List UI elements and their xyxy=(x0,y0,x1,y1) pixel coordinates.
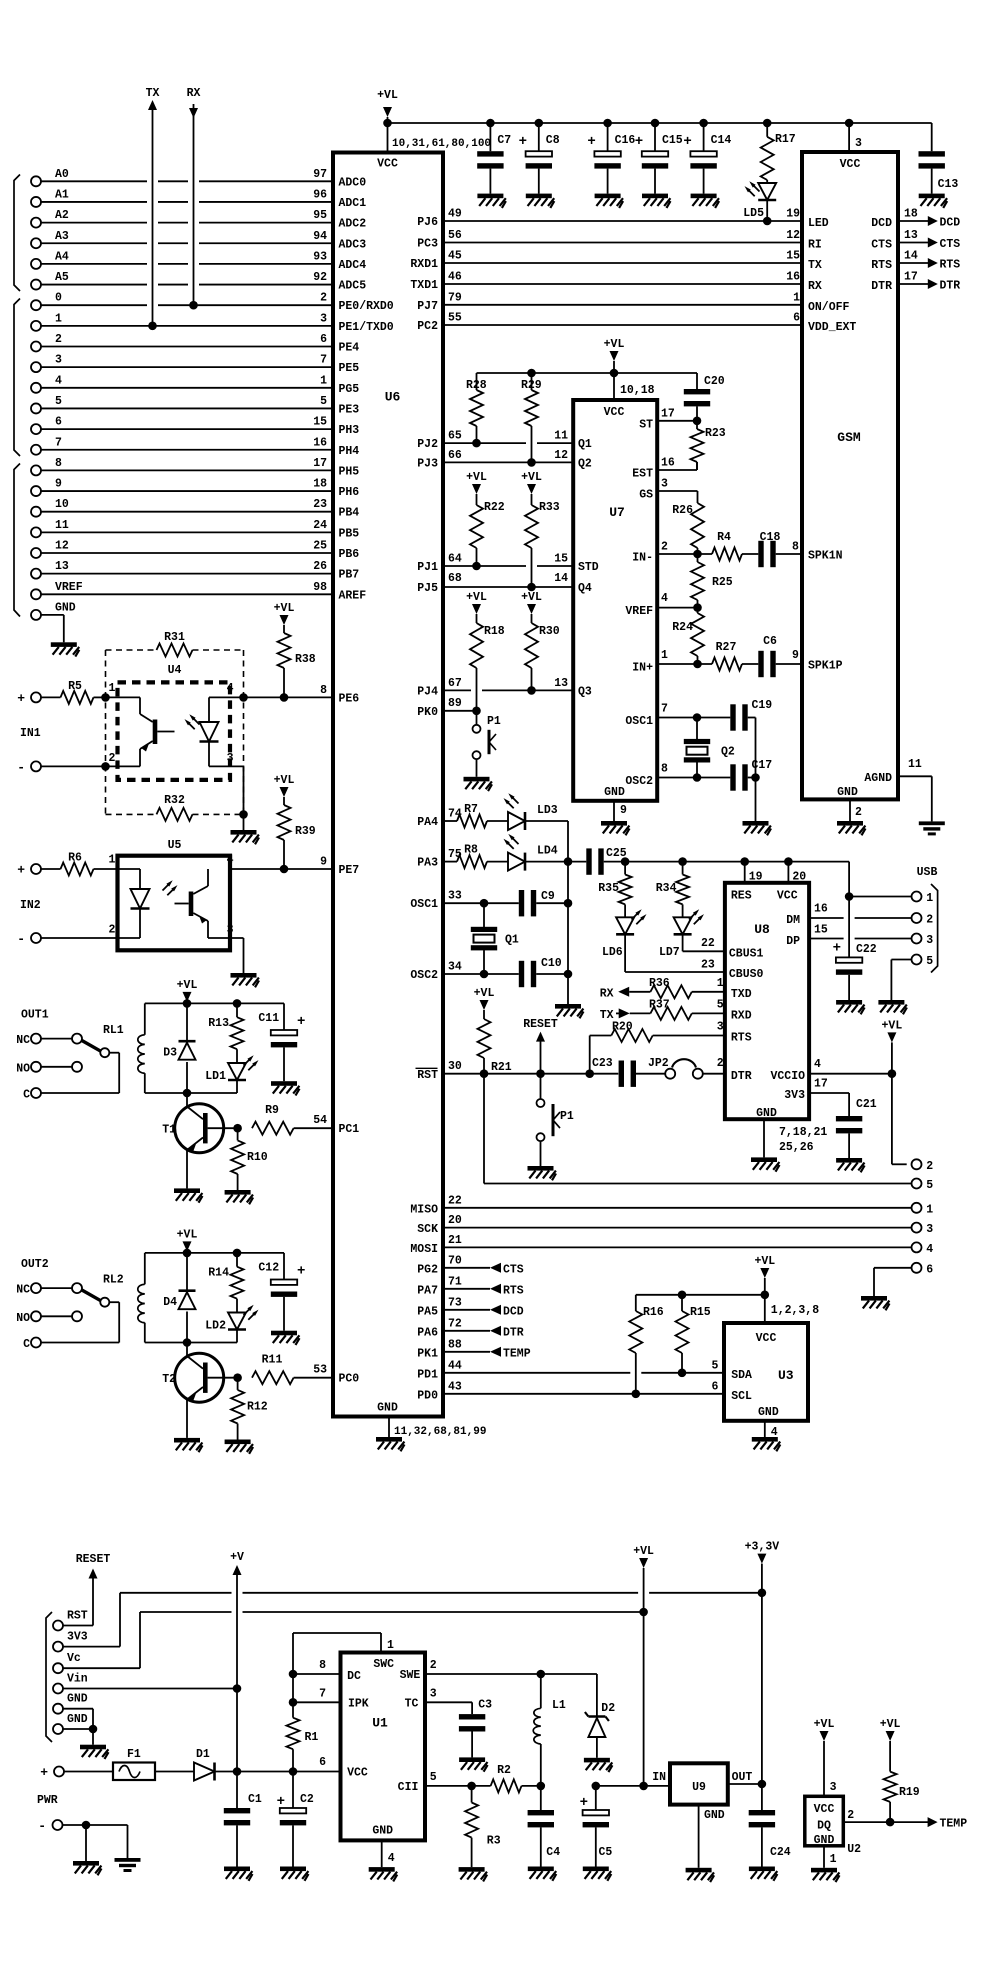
svg-text:C22: C22 xyxy=(856,943,877,956)
svg-text:RESET: RESET xyxy=(76,1553,111,1566)
terminal GND bottom xyxy=(53,1693,88,1714)
wire VREF xyxy=(657,607,697,609)
svg-text:PJ5: PJ5 xyxy=(417,582,438,595)
junction rail2 VCC xyxy=(610,369,619,378)
wire PA4 xyxy=(443,820,457,822)
svg-text:NC: NC xyxy=(16,1034,30,1047)
svg-text:14: 14 xyxy=(554,572,568,585)
svg-text:17: 17 xyxy=(661,407,675,420)
svg-text:GND: GND xyxy=(67,1693,88,1706)
svg-text:-: - xyxy=(17,932,25,947)
svg-text:3: 3 xyxy=(830,1781,837,1794)
pin 94 ADC3 xyxy=(313,230,366,252)
svg-text:R5: R5 xyxy=(68,680,82,693)
svg-text:PH4: PH4 xyxy=(339,445,360,458)
svg-text:A5: A5 xyxy=(55,271,69,284)
svg-text:10,18: 10,18 xyxy=(620,384,655,397)
signal CTS out xyxy=(898,229,960,251)
svg-text:T1: T1 xyxy=(162,1124,176,1137)
svg-text:MISO: MISO xyxy=(410,1203,438,1216)
resistor R21 xyxy=(478,1010,512,1074)
ground C12 xyxy=(271,1331,297,1336)
terminal 4 xyxy=(31,374,62,393)
power +VL R18 xyxy=(466,591,487,614)
svg-text:DTR: DTR xyxy=(731,1070,752,1083)
crystal Q2 xyxy=(684,718,735,778)
button P1a xyxy=(473,711,501,777)
wire DM xyxy=(809,917,844,919)
capacitor C16 xyxy=(587,123,635,194)
wire USB1 xyxy=(849,896,911,898)
svg-text:1: 1 xyxy=(55,312,62,325)
pin PA5 xyxy=(417,1296,462,1318)
wire Vc b xyxy=(64,1667,141,1669)
svg-text:C2: C2 xyxy=(300,1793,314,1806)
svg-text:IN-: IN- xyxy=(632,552,653,565)
led LD5 xyxy=(743,181,776,221)
junction +3,3V line1 xyxy=(758,1589,767,1598)
wire 9 to U6 xyxy=(42,490,334,492)
ground C8 xyxy=(526,194,552,199)
power +VL R19 xyxy=(880,1718,901,1772)
junction R29 rail xyxy=(527,369,536,378)
ground C16 xyxy=(595,194,621,199)
svg-text:2: 2 xyxy=(717,1057,724,1070)
svg-text:A3: A3 xyxy=(55,230,69,243)
ground term6 xyxy=(861,1296,887,1301)
svg-text:64: 64 xyxy=(448,553,462,566)
svg-text:SWC: SWC xyxy=(373,1658,394,1671)
svg-text:C: C xyxy=(23,1338,30,1351)
wire U9 GND xyxy=(698,1805,700,1868)
terminal VREF xyxy=(31,581,83,600)
resistor R29 xyxy=(521,373,542,462)
capacitor C24 xyxy=(749,1784,791,1867)
svg-text:-: - xyxy=(38,1819,46,1834)
svg-text:R35: R35 xyxy=(598,882,619,895)
svg-text:RXD: RXD xyxy=(731,1010,752,1023)
terminal 8 xyxy=(31,457,62,476)
svg-text:8: 8 xyxy=(792,541,799,554)
wire OSC2 U7 xyxy=(657,777,730,779)
svg-text:TEMP: TEMP xyxy=(940,1818,968,1831)
pin 1 PG5 xyxy=(320,374,359,396)
pin 15 PH3 xyxy=(313,416,359,438)
svg-text:C11: C11 xyxy=(258,1012,279,1025)
svg-text:6: 6 xyxy=(320,333,327,346)
svg-text:25: 25 xyxy=(313,540,327,553)
svg-text:RTS: RTS xyxy=(731,1032,752,1045)
svg-text:U9: U9 xyxy=(692,1781,706,1794)
signal RESET xyxy=(523,1018,558,1074)
ground U4 xyxy=(231,830,257,835)
svg-text:AREF: AREF xyxy=(339,589,367,602)
relay RL2 coil xyxy=(138,1253,145,1343)
pin 92 ADC5 xyxy=(313,271,366,293)
wire RXD1 to GSM xyxy=(443,262,802,264)
svg-text:2: 2 xyxy=(926,1160,933,1173)
wire R16 rail xyxy=(636,1294,765,1296)
bracket bottom conn xyxy=(46,1612,52,1742)
svg-text:TX: TX xyxy=(808,259,822,272)
svg-text:C6: C6 xyxy=(763,635,777,648)
svg-text:PA7: PA7 xyxy=(417,1284,438,1297)
junction C9 xyxy=(564,899,573,908)
svg-text:Q2: Q2 xyxy=(578,457,592,470)
pin labels PC3 xyxy=(417,229,800,251)
svg-text:R33: R33 xyxy=(539,501,560,514)
ground U6 xyxy=(376,1437,402,1442)
terminal A2 xyxy=(31,209,69,228)
resistor R38 xyxy=(278,625,316,697)
pin PG2 xyxy=(417,1254,462,1276)
terminal 12 xyxy=(31,540,69,559)
svg-text:4: 4 xyxy=(814,1058,821,1071)
wire SCK xyxy=(443,1227,911,1229)
svg-text:P1: P1 xyxy=(560,1110,574,1123)
pin 93 ADC4 xyxy=(313,250,366,272)
signal DTR out xyxy=(898,271,960,293)
svg-text:+: + xyxy=(277,1794,285,1810)
wire PJ6 to GSM xyxy=(443,220,802,222)
terminal MISO xyxy=(912,1203,934,1217)
junction C24 xyxy=(758,1780,767,1789)
svg-text:PJ4: PJ4 xyxy=(417,685,438,698)
svg-text:2: 2 xyxy=(855,806,862,819)
wire RL2 rail top xyxy=(145,1252,284,1254)
capacitor C25 xyxy=(568,847,849,875)
transistor T1 xyxy=(162,1093,237,1188)
power +VL top xyxy=(377,89,398,123)
pin PA6 xyxy=(417,1317,462,1339)
svg-text:+VL: +VL xyxy=(177,979,198,992)
svg-text:6: 6 xyxy=(926,1263,933,1276)
svg-text:RTS: RTS xyxy=(871,259,892,272)
pins U4 xyxy=(109,682,234,765)
svg-text:PA5: PA5 xyxy=(417,1305,438,1318)
wire PA3 xyxy=(443,861,457,863)
ground U9 xyxy=(686,1868,712,1873)
svg-text:26: 26 xyxy=(313,560,327,573)
svg-text:5: 5 xyxy=(320,395,327,408)
wire SWC net xyxy=(292,1633,294,1702)
svg-text:71: 71 xyxy=(448,1275,462,1288)
bracket 0-7 xyxy=(14,299,20,457)
capacitor C10 xyxy=(519,957,568,987)
junction IN- xyxy=(693,550,702,559)
svg-text:PC2: PC2 xyxy=(417,320,438,333)
terminal GND bottom xyxy=(53,1713,88,1734)
svg-text:17: 17 xyxy=(313,457,327,470)
svg-text:TEMP: TEMP xyxy=(503,1347,531,1360)
pin SPK1N xyxy=(792,541,843,563)
svg-text:6: 6 xyxy=(55,416,62,429)
signal TEMP out xyxy=(928,1817,968,1831)
svg-text:SPK1P: SPK1P xyxy=(808,660,843,673)
svg-text:RES: RES xyxy=(731,890,752,903)
svg-text:33: 33 xyxy=(448,890,462,903)
capacitor C20 xyxy=(684,373,725,421)
diode D1 xyxy=(155,1748,237,1781)
svg-text:18: 18 xyxy=(313,478,327,491)
svg-text:RESET: RESET xyxy=(523,1018,558,1031)
capacitor C18 xyxy=(758,531,802,567)
svg-text:RX: RX xyxy=(187,87,201,100)
svg-text:PC3: PC3 xyxy=(417,238,438,251)
junction R39 xyxy=(280,865,289,874)
svg-text:ADC5: ADC5 xyxy=(339,280,367,293)
svg-text:+: + xyxy=(519,134,527,150)
svg-text:DTR: DTR xyxy=(503,1326,524,1339)
svg-text:OUT1: OUT1 xyxy=(21,1009,49,1022)
svg-text:R8: R8 xyxy=(464,844,478,857)
resistor R35 xyxy=(598,862,631,918)
signal RESET bottom xyxy=(76,1553,111,1626)
svg-text:U6: U6 xyxy=(385,390,401,405)
wire U7 GND xyxy=(613,801,615,821)
svg-text:PH6: PH6 xyxy=(339,486,360,499)
svg-text:95: 95 xyxy=(313,209,327,222)
capacitor C7 xyxy=(477,123,511,194)
svg-text:RL2: RL2 xyxy=(103,1274,124,1287)
resistor R33 xyxy=(525,494,560,587)
svg-text:2: 2 xyxy=(926,914,933,927)
junction R rail1 xyxy=(233,999,242,1008)
capacitor C15 xyxy=(635,123,683,194)
svg-text:GS: GS xyxy=(639,489,653,502)
resistor R5 xyxy=(42,680,106,704)
svg-text:+: + xyxy=(40,1765,48,1780)
svg-text:CBUS0: CBUS0 xyxy=(729,968,764,981)
pin SCK xyxy=(417,1214,462,1236)
terminal 7 xyxy=(31,436,62,455)
terminal Vc bottom xyxy=(53,1652,81,1673)
svg-text:RST: RST xyxy=(417,1069,438,1082)
resistor R13 xyxy=(208,1003,243,1063)
svg-text:4: 4 xyxy=(661,592,668,605)
ground T1 xyxy=(174,1188,200,1193)
svg-text:IN+: IN+ xyxy=(632,662,653,675)
svg-text:AGND: AGND xyxy=(864,772,892,785)
svg-text:ST: ST xyxy=(639,418,653,431)
svg-text:RL1: RL1 xyxy=(103,1024,124,1037)
svg-text:U8: U8 xyxy=(754,922,770,937)
resistor R28 xyxy=(466,373,487,443)
wire RES pin xyxy=(744,862,746,883)
signal DTR in xyxy=(443,1326,524,1340)
svg-text:68: 68 xyxy=(448,572,462,585)
svg-text:C7: C7 xyxy=(497,134,511,147)
svg-text:ADC3: ADC3 xyxy=(339,238,367,251)
pin 98 AREF xyxy=(313,581,366,603)
transistor U5 xyxy=(175,869,209,938)
wire OSC1 row xyxy=(443,902,519,904)
svg-text:TC: TC xyxy=(405,1698,419,1711)
svg-text:11: 11 xyxy=(55,519,69,532)
svg-text:VCC: VCC xyxy=(756,1332,777,1345)
junction PWR- xyxy=(82,1821,91,1830)
svg-text:ADC4: ADC4 xyxy=(339,259,367,272)
svg-text:C20: C20 xyxy=(704,375,725,388)
ground R3 xyxy=(459,1867,485,1872)
svg-text:3: 3 xyxy=(227,752,234,765)
svg-text:NO: NO xyxy=(16,1312,30,1325)
terminal 1 xyxy=(31,312,62,331)
svg-text:CTS: CTS xyxy=(503,1263,524,1276)
wire GND1 b xyxy=(64,1708,94,1710)
wire +VL rail2 xyxy=(477,372,698,374)
terminal 6 xyxy=(912,1263,934,1277)
svg-text:VCC: VCC xyxy=(347,1766,368,1779)
resistor R9 xyxy=(252,1104,333,1135)
svg-text:LD7: LD7 xyxy=(659,946,680,959)
net TX xyxy=(146,87,160,326)
svg-text:U2: U2 xyxy=(847,1843,861,1856)
svg-text:79: 79 xyxy=(448,291,462,304)
wire 5 to U6 xyxy=(42,407,334,409)
svg-text:R26: R26 xyxy=(672,504,693,517)
junction C5 xyxy=(592,1782,601,1791)
svg-text:VCC: VCC xyxy=(377,158,398,171)
wire A3 to U6 xyxy=(42,242,148,244)
pin 16 PH4 xyxy=(313,436,359,458)
signal TX xyxy=(600,1008,630,1022)
svg-text:-: - xyxy=(17,760,25,775)
svg-text:R21: R21 xyxy=(491,1061,512,1074)
led U5 xyxy=(42,869,178,938)
pin 5 PE3 xyxy=(320,395,359,417)
pin 23 PB4 xyxy=(313,498,359,520)
capacitor C21 xyxy=(836,1098,877,1158)
wire A2 to U6 xyxy=(42,222,148,224)
svg-text:PK0: PK0 xyxy=(417,706,438,719)
svg-text:+: + xyxy=(17,863,25,878)
svg-text:VCCIO: VCCIO xyxy=(770,1070,805,1083)
svg-text:9: 9 xyxy=(620,804,627,817)
svg-text:7: 7 xyxy=(661,703,668,716)
svg-text:0: 0 xyxy=(55,292,62,305)
pins PJ2 PJ3 xyxy=(417,430,592,471)
junction R3 xyxy=(467,1782,476,1791)
svg-text:R37: R37 xyxy=(649,999,670,1012)
svg-text:C13: C13 xyxy=(938,178,959,191)
svg-text:2: 2 xyxy=(55,333,62,346)
capacitor C14 xyxy=(683,123,731,194)
junction Vin xyxy=(233,1684,242,1693)
svg-text:C3: C3 xyxy=(478,1699,492,1712)
svg-text:IN2: IN2 xyxy=(20,899,41,912)
junction R30 xyxy=(527,686,536,695)
svg-text:R9: R9 xyxy=(265,1104,279,1117)
opto U4 outer xyxy=(106,650,244,814)
ground P1a xyxy=(464,777,490,782)
svg-text:LED: LED xyxy=(808,217,829,230)
svg-text:OSC1: OSC1 xyxy=(625,715,653,728)
terminal RST bottom xyxy=(53,1610,88,1631)
svg-text:R16: R16 xyxy=(643,1306,664,1319)
wire PWR- gnd1 xyxy=(85,1825,87,1861)
wire OUT row xyxy=(728,1783,762,1785)
terminal USB 5 xyxy=(912,955,934,969)
pin RST xyxy=(416,1060,462,1082)
pin 3 PE1/TXD0 xyxy=(320,312,394,334)
wire 3V3 xyxy=(809,1092,849,1094)
svg-text:PG5: PG5 xyxy=(339,383,360,396)
svg-text:3: 3 xyxy=(926,934,933,947)
wire OSC1 U7 xyxy=(657,717,730,719)
gsm module xyxy=(802,152,898,799)
pin MOSI xyxy=(410,1234,462,1256)
svg-text:4: 4 xyxy=(227,682,234,695)
junction OSC2 U7 xyxy=(693,773,702,782)
svg-text:C14: C14 xyxy=(711,134,732,147)
terminal IN1+ xyxy=(17,691,41,706)
svg-text:3: 3 xyxy=(661,478,668,491)
svg-text:D1: D1 xyxy=(196,1748,210,1761)
svg-text:1: 1 xyxy=(926,892,933,905)
junction Q1 osc1 xyxy=(480,899,489,908)
signal RTS out xyxy=(898,250,960,272)
wire A4 to U6 xyxy=(42,263,148,265)
junction USB1 xyxy=(845,892,854,901)
svg-text:DQ: DQ xyxy=(817,1820,831,1833)
pin labels TXD1 xyxy=(410,271,800,293)
junction DC xyxy=(289,1670,298,1679)
capacitor C17 xyxy=(730,759,772,791)
pin PA7 xyxy=(417,1275,462,1297)
resistor R25 xyxy=(691,554,733,608)
svg-text:2: 2 xyxy=(430,1659,437,1672)
junction C16 xyxy=(603,119,612,128)
svg-text:C5: C5 xyxy=(599,1846,613,1859)
terminal 9 xyxy=(31,478,62,497)
svg-text:R23: R23 xyxy=(705,427,726,440)
wire ST xyxy=(657,420,697,422)
svg-text:9: 9 xyxy=(792,649,799,662)
svg-text:R18: R18 xyxy=(484,625,505,638)
svg-text:7: 7 xyxy=(55,436,62,449)
led LD4 xyxy=(504,834,569,871)
wire IN+ xyxy=(657,663,712,665)
resistor R30 xyxy=(525,614,560,690)
wire line2 xyxy=(140,1611,232,1613)
svg-text:C8: C8 xyxy=(546,134,560,147)
signal DCD in xyxy=(443,1305,524,1319)
terminal 3V3 bottom xyxy=(53,1631,88,1652)
junction L1 xyxy=(537,1670,546,1679)
svg-text:R17: R17 xyxy=(775,133,796,146)
inductor L1 xyxy=(533,1674,566,1786)
pin labels PJ7 xyxy=(417,291,800,313)
svg-text:89: 89 xyxy=(448,697,462,710)
svg-text:73: 73 xyxy=(448,1296,462,1309)
junction R29 xyxy=(527,458,536,467)
svg-text:SWE: SWE xyxy=(400,1669,421,1682)
bracket 8-13 xyxy=(14,464,20,617)
svg-text:GND: GND xyxy=(67,1713,88,1726)
wire EST xyxy=(657,469,697,471)
svg-text:LD1: LD1 xyxy=(205,1070,226,1083)
wire 10 to U6 xyxy=(42,511,334,513)
zener D2 xyxy=(585,1674,615,1758)
wire 13 to U6 xyxy=(42,573,334,575)
wire Vin b xyxy=(64,1688,238,1690)
svg-text:PE4: PE4 xyxy=(339,342,360,355)
wire PJ2-Q1 xyxy=(443,442,526,444)
junction C15 xyxy=(651,119,660,128)
junction VREF xyxy=(693,603,702,612)
svg-text:U7: U7 xyxy=(609,505,625,520)
